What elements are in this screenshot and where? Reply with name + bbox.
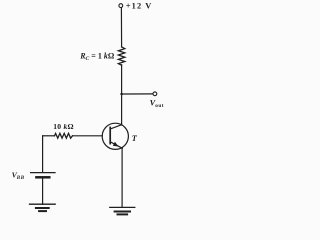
wire: base lead (resistor to transistor) (73, 135, 103, 137)
wire: supply terminal down to RC (120, 8, 122, 47)
battery VBB: negative plate (short thick) (36, 176, 49, 179)
ground (right, below emitter) (110, 207, 135, 214)
svg-text:T: T (132, 134, 138, 143)
wire: emitter to ground (121, 148, 123, 207)
svg-text:RC = 1 kΩ: RC = 1 kΩ (79, 51, 115, 62)
wire: junction to Vout terminal (122, 93, 153, 95)
svg-text:Vout: Vout (150, 99, 164, 109)
resistor RC (vertical zigzag) (118, 47, 124, 65)
wire: corner to RB (43, 135, 55, 137)
node: Vout junction dot (120, 93, 123, 96)
resistor RB 10k (horizontal zigzag) (55, 133, 73, 138)
ground (left, below battery) (30, 204, 56, 211)
battery VBB: positive plate (long) (31, 172, 55, 174)
transistor T: base bar (109, 127, 111, 143)
Vout terminal (153, 92, 157, 96)
svg-text:+12 V: +12 V (126, 1, 153, 10)
svg-text:10 kΩ: 10 kΩ (53, 122, 74, 131)
transistor T: emitter diagonal (110, 142, 122, 149)
wire: corner down to battery (42, 136, 44, 173)
svg-text:VBB: VBB (12, 170, 25, 181)
transistor T: collector diagonal (110, 125, 122, 129)
wire: battery to ground (42, 179, 44, 205)
transistor T: emitter arrowhead (113, 142, 119, 147)
wire: RC down to collector (121, 65, 123, 125)
transistor T: body circle (102, 123, 128, 149)
+12V supply terminal (119, 4, 123, 8)
